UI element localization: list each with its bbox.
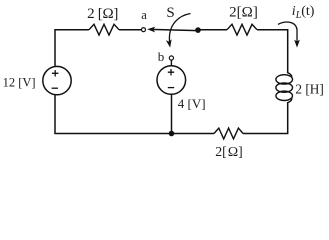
node a terminal circle — [142, 28, 146, 32]
current arrow iL(t) arrowhead — [294, 40, 300, 48]
inductor entry hook — [288, 73, 292, 77]
V1 minus sign — [52, 87, 58, 89]
svg-text:2 [Ω]: 2 [Ω] — [87, 6, 118, 22]
svg-text:2[ Ω]: 2[ Ω] — [215, 144, 243, 159]
wire stub from node b to V2 — [170, 60, 172, 66]
voltage source V1 12V circle — [43, 66, 71, 94]
wire bottom-left segment and left rail lower — [55, 95, 172, 134]
junction dot on bottom wire — [169, 131, 175, 137]
switch S motion arc arrowhead — [166, 39, 173, 48]
resistor R2 2-ohm top-right zigzag — [227, 24, 257, 35]
V2 plus sign — [168, 69, 174, 75]
switch S blade arrowhead at a — [147, 26, 155, 32]
svg-text:a: a — [141, 8, 147, 22]
svg-text:12 [V]: 12 [V] — [3, 76, 36, 90]
voltage source V2 4V circle — [157, 66, 186, 95]
wire right rail lower and bottom-right segment — [243, 102, 288, 134]
inductor exit hook — [288, 98, 292, 102]
switch S blade wire — [150, 29, 198, 30]
wire from pivot to R2 — [198, 29, 227, 31]
svg-text:S: S — [166, 5, 174, 21]
current arrow iL(t) curve — [278, 22, 297, 43]
svg-text:2 [H]: 2 [H] — [295, 82, 323, 97]
wire top-right corner into inductor — [257, 30, 288, 73]
wire from R1 to terminal a — [119, 29, 141, 31]
V1 plus sign — [52, 70, 58, 76]
resistor R3 2-ohm bottom zigzag — [214, 128, 243, 139]
switch S motion arc from S toward b — [169, 14, 190, 43]
resistor R1 2-ohm top-left zigzag — [89, 24, 119, 35]
wire bottom middle from R3 to junction — [172, 133, 215, 135]
svg-text:iL(t): iL(t) — [292, 4, 315, 21]
inductor L 2H loops — [276, 75, 293, 101]
node b terminal circle — [169, 56, 173, 60]
junction dot on top wire at switch pivot — [195, 27, 201, 33]
svg-text:2[Ω]: 2[Ω] — [229, 4, 258, 20]
V2 minus sign — [168, 87, 174, 89]
svg-text:4 [V]: 4 [V] — [178, 96, 206, 111]
svg-text:b: b — [158, 49, 165, 64]
wire top-left segment and left rail upper — [55, 30, 89, 67]
wire from V2 down to bottom junction — [171, 94, 173, 133]
